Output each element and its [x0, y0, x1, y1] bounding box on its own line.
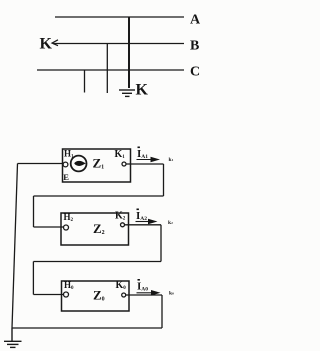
svg-text:K1: K1 [115, 149, 126, 160]
stub on phase C [84, 70, 86, 93]
svg-text:IA2: IA2 [136, 210, 147, 222]
terminal H0 [64, 292, 69, 297]
wire loop2 down to H0 [32, 262, 34, 295]
phase line A [55, 16, 184, 18]
svg-text:K: K [136, 82, 149, 99]
wire into H0 [33, 294, 63, 296]
wire bottom horizontal [12, 327, 162, 329]
svg-text:IA1: IA1 [137, 148, 148, 160]
ground at fault [119, 90, 135, 96]
phase line B [53, 43, 184, 45]
svg-text:C: C [190, 65, 200, 80]
svg-text:Z1: Z1 [93, 156, 105, 171]
terminal H1 [63, 162, 68, 167]
svg-text:E: E [63, 172, 69, 182]
positive-sequence network box Z1 [63, 149, 131, 182]
negative-sequence network box Z2 [61, 213, 129, 245]
phase line C [37, 69, 184, 71]
current arrow IA1 [137, 157, 161, 163]
left bus wire [12, 164, 18, 329]
terminal K0 [122, 293, 126, 297]
svg-text:K2: K2 [115, 211, 126, 222]
wire K1 right [126, 163, 164, 165]
current arrow IA0 [137, 290, 161, 296]
svg-text:k0: k0 [169, 291, 174, 297]
wire K0 right [126, 294, 162, 296]
terminal K1 [122, 162, 126, 166]
wire loop1 across [34, 195, 164, 197]
svg-text:IA0: IA0 [137, 281, 148, 293]
wire K2 right [125, 224, 162, 226]
zero-sequence network box Z0 [62, 281, 130, 311]
wire loop1 down [163, 164, 165, 196]
svg-text:B: B [190, 39, 199, 54]
wire loop3 down [161, 295, 163, 328]
svg-text:Z2: Z2 [93, 221, 105, 236]
wire H1 to left bus [18, 163, 64, 165]
current arrow IA2 [136, 219, 158, 225]
wire loop2 down [160, 225, 162, 262]
terminal K2 [121, 223, 125, 227]
EMF source E [71, 156, 87, 172]
svg-text:Z0: Z0 [93, 288, 105, 303]
stub on phase B [106, 44, 108, 94]
svg-text:K: K [40, 35, 53, 52]
ground at bottom left [4, 328, 22, 347]
svg-text:k1: k1 [169, 157, 174, 163]
fault branch on phase A [128, 17, 130, 88]
svg-text:k2: k2 [168, 220, 173, 226]
arrowhead pointing at K [52, 40, 58, 46]
svg-text:A: A [190, 13, 201, 28]
wire loop1 down to H2 [33, 196, 35, 227]
terminal H2 [64, 225, 69, 230]
wire into H2 [34, 226, 64, 228]
wire loop2 across [33, 261, 161, 263]
